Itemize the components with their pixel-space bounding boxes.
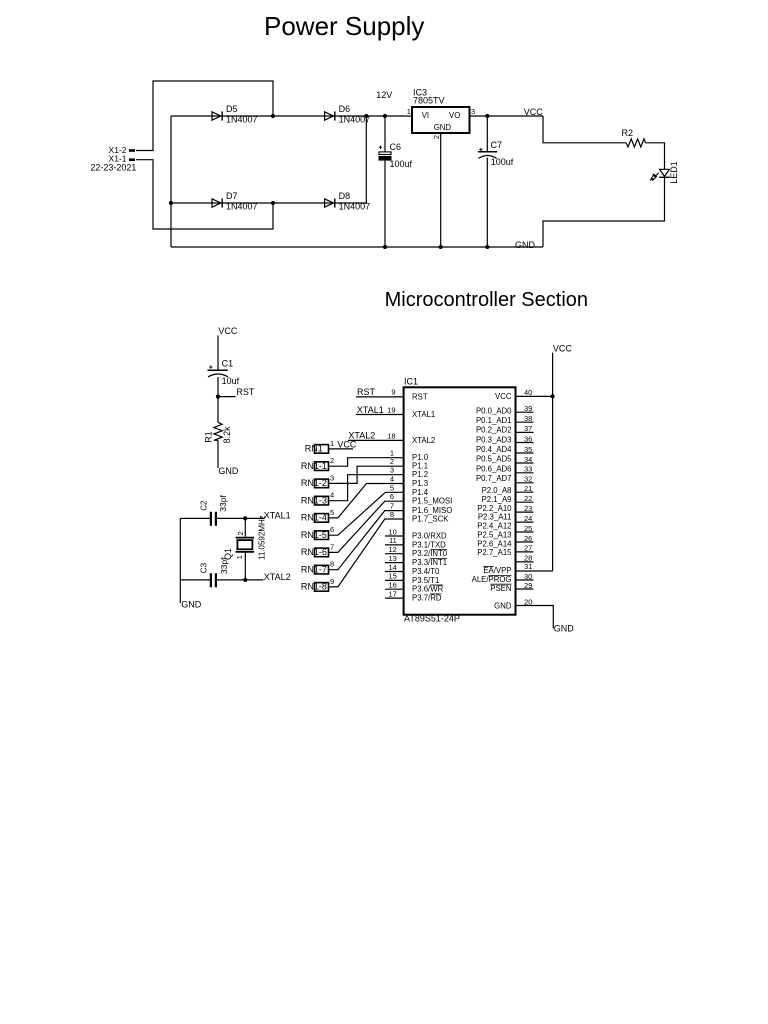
svg-text:P0.0_AD0: P0.0_AD0	[476, 406, 512, 415]
svg-text:P0.3_AD3: P0.3_AD3	[476, 435, 512, 444]
svg-text:8: 8	[330, 560, 334, 569]
svg-text:C6: C6	[390, 142, 402, 152]
svg-text:1N4007: 1N4007	[226, 114, 258, 124]
svg-text:19: 19	[387, 405, 395, 414]
wire GND rail	[171, 246, 543, 248]
crystal Q1	[223, 515, 266, 560]
svg-text:5: 5	[330, 508, 334, 517]
svg-text:P1.5_MOSI: P1.5_MOSI	[412, 497, 452, 506]
svg-text:13: 13	[388, 554, 396, 563]
wire IC3 output to VCC corner	[470, 115, 544, 117]
svg-text:XTAL1: XTAL1	[264, 510, 291, 520]
svg-text:11: 11	[389, 536, 397, 545]
pin numbers left side IC1	[387, 388, 397, 599]
svg-text:R1: R1	[203, 431, 213, 443]
junction dots power supply	[169, 114, 490, 249]
svg-text:39: 39	[524, 404, 532, 413]
svg-text:6: 6	[330, 525, 334, 534]
connector pin RN1-5	[301, 525, 334, 540]
svg-text:XTAL2: XTAL2	[264, 572, 291, 582]
svg-text:GND: GND	[181, 600, 202, 610]
svg-text:33: 33	[524, 465, 532, 474]
wire stubs P3.0-P3.7 (pins 10-17)	[385, 536, 404, 598]
wire VCC to R2 to LED1 loop	[543, 116, 665, 247]
svg-text:P3.4/T0: P3.4/T0	[412, 567, 440, 576]
wire RN1-8 to P1.7	[329, 519, 404, 587]
svg-text:P0.5_AD5: P0.5_AD5	[476, 455, 512, 464]
svg-text:P3.2/INT0: P3.2/INT0	[412, 549, 448, 558]
wire RST stub	[218, 396, 236, 398]
svg-text:25: 25	[524, 524, 532, 533]
svg-text:P2.4_A12: P2.4_A12	[477, 522, 511, 531]
resistor R1	[203, 422, 232, 443]
svg-text:P2.3_A11: P2.3_A11	[478, 513, 512, 522]
wire RST to IC1 pin 9	[356, 396, 404, 398]
svg-text:P0.1_AD1: P0.1_AD1	[476, 416, 512, 425]
connector pin RN1-3	[301, 491, 334, 506]
svg-text:P1.3: P1.3	[412, 479, 428, 488]
svg-text:7: 7	[330, 542, 334, 551]
junction dot XTAL2	[243, 578, 247, 582]
svg-text:GND: GND	[494, 601, 512, 610]
connector pin RN1-4	[301, 508, 334, 523]
wire RN1-1 to P1.0	[329, 458, 404, 467]
svg-text:ALE/PROG: ALE/PROG	[472, 575, 512, 584]
svg-text:22: 22	[524, 494, 532, 503]
wire XTAL1 row	[180, 517, 263, 519]
svg-text:C3: C3	[199, 562, 208, 573]
wire crystal left vertical to GND	[179, 518, 181, 603]
svg-text:7805TV: 7805TV	[413, 95, 445, 105]
svg-text:30: 30	[524, 572, 532, 581]
svg-text:P3.7/RD: P3.7/RD	[412, 594, 442, 603]
wire IC1 pin 40	[516, 395, 553, 397]
svg-text:AT89S51-24P: AT89S51-24P	[404, 614, 460, 624]
terminal X1-1	[129, 158, 135, 161]
svg-text:35: 35	[524, 445, 532, 454]
svg-text:15: 15	[388, 572, 396, 581]
svg-text:10uf: 10uf	[222, 376, 240, 386]
svg-text:3: 3	[471, 107, 475, 116]
svg-text:17: 17	[388, 589, 396, 598]
svg-text:GND: GND	[554, 624, 575, 634]
wire RN1 pin1 to VCC stub	[329, 448, 354, 450]
svg-text:D6: D6	[339, 104, 351, 114]
svg-text:9: 9	[391, 388, 395, 397]
svg-text:18: 18	[387, 431, 395, 440]
svg-text:P1.7_SCK: P1.7_SCK	[412, 515, 449, 524]
connector pin RN1	[305, 439, 334, 454]
svg-text:36: 36	[524, 434, 532, 443]
svg-text:D8: D8	[339, 191, 351, 201]
svg-text:24: 24	[524, 514, 532, 523]
svg-text:XTAL2: XTAL2	[348, 431, 375, 441]
svg-text:P3.5/T1: P3.5/T1	[412, 576, 439, 585]
wire C1 to RST junction to R1	[217, 377, 219, 422]
microcontroller IC1 box	[404, 387, 516, 614]
svg-text:16: 16	[388, 581, 396, 590]
junction dot RST node	[216, 395, 220, 399]
svg-text:Power Supply: Power Supply	[264, 11, 424, 41]
svg-text:XTAL2: XTAL2	[412, 436, 435, 445]
svg-text:2: 2	[432, 135, 441, 139]
wire XTAL2 row	[180, 579, 263, 581]
wire D8 cathode riser	[365, 116, 367, 203]
svg-text:1N4007: 1N4007	[339, 201, 371, 211]
svg-text:33pf: 33pf	[218, 495, 228, 512]
wire RN1-3 to P1.2	[329, 475, 404, 501]
diode D8	[325, 191, 371, 211]
wire stubs P0/P2/ALE/PSEN pins right side	[516, 412, 534, 589]
svg-text:P3.0/RXD: P3.0/RXD	[412, 532, 447, 541]
svg-text:P2.0_A8: P2.0_A8	[482, 486, 512, 495]
svg-text:RST: RST	[357, 387, 376, 397]
wire C7 branch	[486, 116, 488, 247]
wire VCC vertical right of IC1	[552, 353, 554, 571]
svg-text:1: 1	[235, 555, 244, 559]
svg-text:6: 6	[390, 492, 394, 501]
svg-text:GND: GND	[515, 240, 536, 250]
connector pin RN1-1	[301, 456, 334, 471]
svg-text:P2.6_A14: P2.6_A14	[477, 539, 512, 548]
svg-text:P3.1/TXD: P3.1/TXD	[412, 540, 446, 549]
svg-text:C2: C2	[199, 500, 208, 511]
wire XTAL1 to IC1 pin 19	[356, 414, 404, 416]
svg-text:RST: RST	[236, 387, 255, 397]
junction dot XTAL1	[243, 516, 247, 520]
wire C6 branch	[384, 116, 386, 247]
svg-text:VO: VO	[449, 111, 460, 120]
svg-text:P1.4: P1.4	[412, 488, 429, 497]
svg-text:11.0592MHz: 11.0592MHz	[258, 515, 267, 560]
svg-text:27: 27	[524, 544, 532, 553]
svg-text:VCC: VCC	[495, 392, 512, 401]
svg-text:32: 32	[524, 475, 532, 484]
svg-text:C7: C7	[491, 140, 503, 150]
svg-text:P0.7_AD7: P0.7_AD7	[476, 474, 512, 483]
svg-text:GND: GND	[434, 123, 452, 132]
wire RN1-6 to P1.5	[329, 501, 404, 552]
wire RN1-7 to P1.6	[329, 511, 404, 570]
svg-text:38: 38	[524, 414, 532, 423]
resistor R2	[622, 128, 646, 147]
svg-text:R2: R2	[622, 128, 634, 138]
wire IC3 GND pin down	[440, 133, 442, 247]
wire RN1-2 to P1.1	[329, 466, 404, 483]
svg-text:D5: D5	[226, 104, 238, 114]
wire bottom diode row (D7/D8)	[171, 202, 366, 204]
wire crystal branch top	[244, 518, 246, 536]
svg-text:26: 26	[524, 534, 532, 543]
IC1 left pin labels	[412, 392, 452, 602]
wire XTAL2 to IC1 pin 18	[348, 439, 404, 441]
svg-text:31: 31	[524, 562, 532, 571]
svg-text:5: 5	[390, 483, 394, 492]
voltage regulator IC3 7805TV	[407, 88, 475, 140]
svg-text:8: 8	[390, 510, 394, 519]
svg-text:P3.3/INT1: P3.3/INT1	[412, 558, 447, 567]
svg-text:D7: D7	[226, 191, 238, 201]
svg-text:34: 34	[524, 455, 532, 464]
svg-text:8.2k: 8.2k	[222, 426, 232, 444]
svg-text:4: 4	[330, 491, 334, 500]
svg-text:P2.7_A15: P2.7_A15	[477, 548, 512, 557]
diode D7	[212, 191, 258, 211]
wire IC1 pin 20 to GND	[516, 606, 554, 629]
svg-text:VCC: VCC	[524, 107, 544, 117]
connector pin RN1-2	[301, 473, 334, 488]
svg-text:29: 29	[524, 581, 532, 590]
svg-text:EA/VPP: EA/VPP	[483, 566, 511, 575]
svg-text:P2.5_A13: P2.5_A13	[477, 530, 511, 539]
capacitor C1	[208, 359, 240, 387]
svg-text:RST: RST	[412, 392, 428, 401]
svg-text:9: 9	[330, 577, 334, 586]
wire left vertical (D5/D7 anodes to GND rail)	[170, 116, 172, 247]
capacitor C2	[199, 495, 228, 526]
svg-text:P2.1_A9: P2.1_A9	[482, 495, 512, 504]
svg-text:VCC: VCC	[218, 326, 238, 336]
diode D5	[212, 104, 258, 124]
capacitor C7	[478, 140, 514, 167]
LED LED1	[650, 161, 679, 184]
connector pin RN1-8	[301, 577, 334, 592]
svg-text:C1: C1	[222, 359, 234, 369]
svg-text:12V: 12V	[376, 90, 392, 100]
wire RN1-5 to P1.4	[329, 492, 404, 535]
svg-text:1: 1	[330, 439, 334, 448]
svg-text:22-23-2021: 22-23-2021	[90, 162, 136, 172]
svg-text:33pf: 33pf	[219, 557, 229, 574]
svg-text:P1.2: P1.2	[412, 470, 428, 479]
wire AC input 1 (X1-2 to D5/D6 junction)	[136, 81, 273, 151]
svg-text:XTAL1: XTAL1	[357, 405, 384, 415]
svg-text:IC1: IC1	[404, 377, 418, 387]
svg-text:37: 37	[524, 424, 532, 433]
capacitor C6	[379, 142, 413, 169]
svg-text:VCC: VCC	[553, 343, 573, 353]
wire RN1-4 to P1.3	[329, 484, 404, 518]
svg-text:23: 23	[524, 504, 532, 513]
wire IC1 pin 31	[516, 570, 553, 572]
svg-text:2: 2	[330, 456, 334, 465]
svg-text:3: 3	[330, 473, 334, 482]
svg-text:P3.6/WR: P3.6/WR	[412, 585, 444, 594]
svg-text:LED1: LED1	[669, 161, 679, 184]
svg-text:12: 12	[388, 545, 396, 554]
wire VCC to C1	[217, 336, 219, 370]
svg-text:100uf: 100uf	[491, 157, 514, 167]
terminal X1-2	[129, 149, 135, 152]
svg-text:2: 2	[236, 531, 245, 535]
svg-text:14: 14	[388, 563, 396, 572]
svg-text:1: 1	[407, 107, 411, 116]
svg-text:100uf: 100uf	[390, 159, 413, 169]
svg-text:VCC: VCC	[337, 440, 357, 450]
pin numbers right side IC1	[524, 388, 532, 606]
svg-text:P2.2_A10: P2.2_A10	[477, 504, 512, 513]
svg-text:P0.6_AD6: P0.6_AD6	[476, 464, 512, 473]
wire crystal branch bottom	[244, 552, 246, 580]
svg-text:GND: GND	[218, 466, 239, 476]
svg-text:21: 21	[524, 484, 532, 493]
svg-text:10: 10	[388, 527, 396, 536]
svg-text:P0.4_AD4: P0.4_AD4	[476, 445, 512, 454]
IC1 right pin labels	[472, 392, 513, 611]
svg-text:VI: VI	[422, 111, 429, 120]
svg-text:PSEN: PSEN	[490, 584, 511, 593]
wire AC input 2 (X1-1 to D7/D8 junction)	[136, 160, 273, 229]
svg-text:4: 4	[390, 475, 394, 484]
svg-text:P0.2_AD2: P0.2_AD2	[476, 426, 512, 435]
svg-text:XTAL1: XTAL1	[412, 410, 435, 419]
capacitor C3	[199, 557, 229, 587]
svg-text:Microcontroller Section: Microcontroller Section	[385, 289, 588, 311]
connector pin RN1-6	[301, 542, 334, 557]
svg-text:3: 3	[390, 466, 394, 475]
junction dot pin 40	[551, 394, 555, 398]
svg-text:1N4007: 1N4007	[226, 201, 258, 211]
connector pin RN1-7	[301, 560, 334, 575]
diode D6	[325, 104, 371, 124]
wire R1 to GND	[217, 440, 219, 468]
wire top rail (D5 row to IC3 VI)	[171, 115, 412, 117]
